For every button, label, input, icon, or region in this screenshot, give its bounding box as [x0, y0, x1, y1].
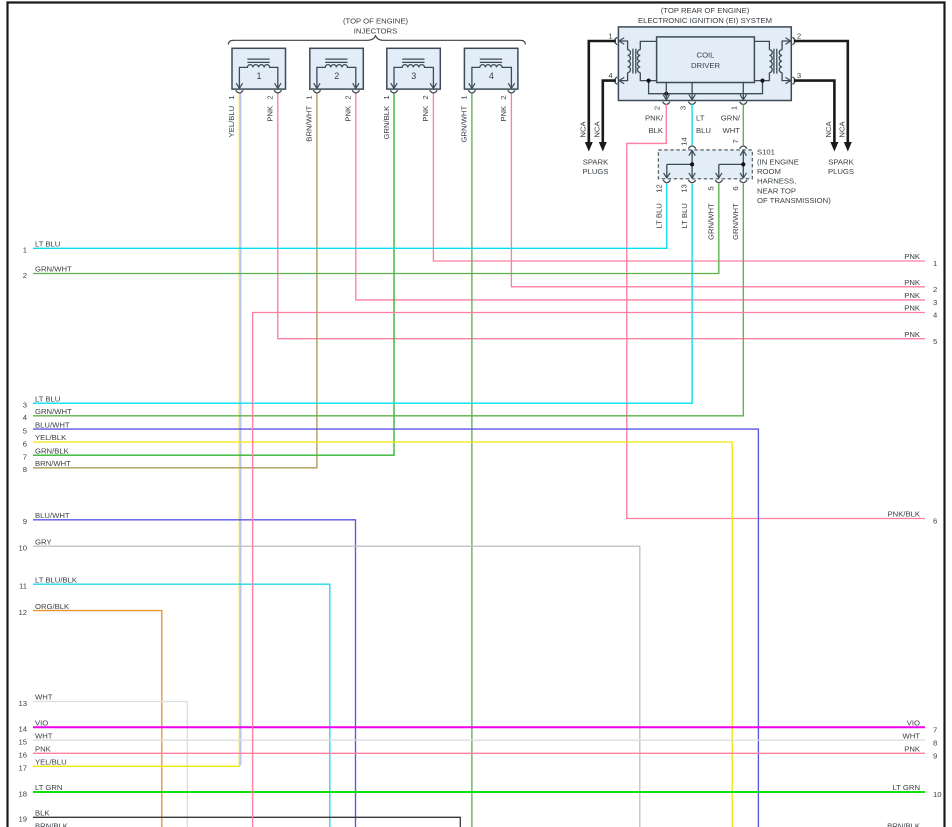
svg-text:6: 6	[933, 517, 937, 526]
svg-text:7: 7	[731, 139, 740, 143]
svg-text:LT BLU/BLK: LT BLU/BLK	[35, 575, 78, 584]
svg-text:PNK: PNK	[344, 105, 353, 122]
svg-text:OF TRANSMISSION): OF TRANSMISSION)	[757, 196, 831, 205]
svg-text:COIL: COIL	[697, 50, 716, 59]
svg-text:PNK: PNK	[266, 105, 275, 122]
svg-text:PNK: PNK	[904, 252, 921, 261]
svg-text:ROOM: ROOM	[757, 167, 781, 176]
svg-text:9: 9	[933, 752, 937, 761]
svg-text:LT BLU: LT BLU	[680, 203, 689, 228]
svg-text:12: 12	[18, 608, 27, 617]
svg-text:6: 6	[23, 439, 27, 448]
svg-text:10: 10	[18, 544, 27, 553]
svg-text:17: 17	[18, 764, 27, 773]
svg-text:NEAR TOP: NEAR TOP	[757, 186, 796, 195]
svg-text:(TOP OF ENGINE): (TOP OF ENGINE)	[343, 17, 409, 26]
svg-text:GRY: GRY	[35, 537, 52, 546]
svg-text:NCA: NCA	[593, 121, 602, 138]
svg-text:GRN/WHT: GRN/WHT	[35, 407, 72, 416]
svg-text:LT BLU: LT BLU	[35, 394, 60, 403]
svg-text:NCA: NCA	[579, 121, 588, 138]
svg-text:GRN/WHT: GRN/WHT	[35, 265, 72, 274]
svg-text:1: 1	[23, 246, 27, 255]
svg-text:PNK: PNK	[35, 745, 52, 754]
svg-text:BLU: BLU	[696, 126, 711, 135]
svg-text:4: 4	[23, 413, 28, 422]
svg-text:7: 7	[23, 453, 27, 462]
svg-text:PNK: PNK	[904, 278, 921, 287]
svg-text:5: 5	[23, 427, 27, 436]
svg-text:BLU/WHT: BLU/WHT	[35, 420, 70, 429]
svg-text:3: 3	[933, 298, 937, 307]
svg-text:INJECTORS: INJECTORS	[354, 27, 397, 36]
svg-text:12: 12	[654, 184, 663, 193]
svg-text:BRN/WHT: BRN/WHT	[305, 106, 314, 142]
svg-text:NCA: NCA	[838, 121, 847, 138]
svg-text:14: 14	[680, 137, 689, 146]
svg-text:2: 2	[933, 285, 937, 294]
svg-text:1: 1	[730, 106, 739, 110]
svg-text:HARNESS,: HARNESS,	[757, 177, 796, 186]
svg-text:S101: S101	[757, 148, 775, 157]
svg-text:YEL/BLK: YEL/BLK	[35, 433, 67, 442]
svg-text:14: 14	[18, 725, 27, 734]
svg-text:8: 8	[933, 738, 937, 747]
svg-text:YEL/BLU: YEL/BLU	[227, 106, 236, 138]
svg-text:2: 2	[23, 271, 27, 280]
svg-text:4: 4	[933, 311, 938, 320]
svg-text:1: 1	[933, 259, 937, 268]
svg-text:19: 19	[18, 815, 27, 824]
svg-text:2: 2	[499, 95, 508, 99]
svg-text:WHT: WHT	[722, 126, 740, 135]
svg-text:5: 5	[706, 186, 715, 190]
svg-text:2: 2	[421, 95, 430, 99]
svg-text:(IN ENGINE: (IN ENGINE	[757, 157, 799, 166]
svg-text:1: 1	[382, 95, 391, 99]
svg-text:PNK/BLK: PNK/BLK	[888, 510, 921, 519]
svg-text:PNK: PNK	[904, 304, 921, 313]
svg-text:VIO: VIO	[35, 718, 48, 727]
svg-text:GRN/WHT: GRN/WHT	[460, 106, 469, 143]
svg-text:SPARK: SPARK	[583, 158, 609, 167]
svg-text:LT GRN: LT GRN	[35, 783, 62, 792]
svg-text:3: 3	[411, 71, 416, 81]
svg-text:3: 3	[797, 71, 801, 80]
svg-text:WHT: WHT	[902, 731, 920, 740]
svg-text:LT GRN: LT GRN	[893, 783, 920, 792]
svg-text:2: 2	[266, 95, 275, 99]
svg-text:BLK: BLK	[35, 809, 50, 818]
svg-text:PNK: PNK	[499, 105, 508, 122]
svg-text:13: 13	[680, 184, 689, 193]
svg-text:2: 2	[797, 32, 801, 41]
svg-text:LT BLU: LT BLU	[655, 203, 664, 228]
svg-text:16: 16	[18, 751, 27, 760]
svg-text:PNK: PNK	[421, 105, 430, 122]
svg-text:LT: LT	[696, 114, 705, 123]
svg-text:BRN/WHT: BRN/WHT	[35, 459, 71, 468]
svg-text:VIO: VIO	[907, 718, 920, 727]
svg-text:9: 9	[23, 517, 27, 526]
svg-text:1: 1	[227, 95, 236, 99]
svg-text:1: 1	[608, 32, 612, 41]
svg-text:BLU/WHT: BLU/WHT	[35, 511, 70, 520]
svg-text:BRN/BLK: BRN/BLK	[887, 822, 921, 827]
svg-text:1: 1	[305, 95, 314, 99]
svg-text:(TOP REAR OF ENGINE): (TOP REAR OF ENGINE)	[661, 6, 750, 15]
svg-text:GRN/WHT: GRN/WHT	[731, 203, 740, 240]
svg-text:6: 6	[731, 186, 740, 190]
svg-text:LT BLU: LT BLU	[35, 240, 60, 249]
svg-text:SPARK: SPARK	[828, 158, 854, 167]
svg-text:GRN/BLK: GRN/BLK	[382, 105, 391, 140]
svg-text:4: 4	[608, 71, 613, 80]
svg-text:GRN/BLK: GRN/BLK	[35, 446, 70, 455]
svg-text:BLK: BLK	[648, 126, 663, 135]
svg-text:3: 3	[679, 106, 688, 110]
svg-text:PLUGS: PLUGS	[828, 167, 854, 176]
svg-text:NCA: NCA	[824, 121, 833, 138]
svg-text:3: 3	[23, 401, 27, 410]
svg-text:ORG/BLK: ORG/BLK	[35, 602, 70, 611]
svg-text:2: 2	[653, 106, 662, 110]
svg-text:1: 1	[256, 71, 261, 81]
svg-text:2: 2	[344, 95, 353, 99]
svg-text:GRN/: GRN/	[721, 114, 741, 123]
svg-text:GRN/WHT: GRN/WHT	[707, 203, 716, 240]
svg-text:PNK/: PNK/	[645, 114, 664, 123]
svg-text:BRN/BLK: BRN/BLK	[35, 822, 69, 827]
svg-text:PLUGS: PLUGS	[582, 167, 608, 176]
svg-text:DRIVER: DRIVER	[691, 61, 720, 70]
svg-text:WHT: WHT	[35, 693, 53, 702]
svg-text:PNK: PNK	[904, 745, 921, 754]
svg-text:4: 4	[489, 71, 494, 81]
svg-text:5: 5	[933, 337, 937, 346]
svg-text:8: 8	[23, 465, 27, 474]
svg-text:18: 18	[18, 789, 27, 798]
svg-text:PNK: PNK	[904, 330, 921, 339]
svg-text:2: 2	[334, 71, 339, 81]
svg-text:1: 1	[460, 95, 469, 99]
svg-text:WHT: WHT	[35, 731, 53, 740]
svg-text:7: 7	[933, 725, 937, 734]
svg-text:PNK: PNK	[904, 291, 921, 300]
svg-text:15: 15	[18, 738, 27, 747]
svg-text:11: 11	[19, 582, 27, 591]
svg-text:13: 13	[18, 699, 27, 708]
svg-text:10: 10	[933, 790, 942, 799]
svg-text:YEL/BLU: YEL/BLU	[35, 758, 67, 767]
svg-text:ELECTRONIC IGNITION (EI) SYSTE: ELECTRONIC IGNITION (EI) SYSTEM	[638, 16, 772, 25]
